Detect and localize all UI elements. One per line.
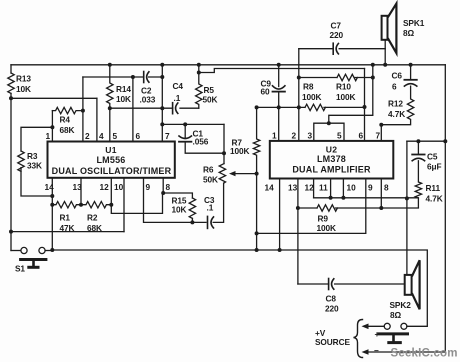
wire pin5 U1 [109, 108, 111, 141]
wire R3 bottom [21, 168, 52, 196]
wire pin7 bracket U1 [162, 123, 224, 125]
svg-text:2: 2 [85, 131, 90, 141]
junction C5 top [416, 139, 420, 143]
junction pin11 U2 [329, 196, 333, 200]
svg-text:C5: C5 [427, 152, 438, 162]
svg-text:100K: 100K [230, 146, 250, 156]
IC U1 box [48, 142, 175, 178]
wire left rail mid [10, 93, 12, 250]
wire pin12 U2 [313, 179, 315, 198]
resistor R3 [18, 151, 24, 171]
wire C5 top [407, 140, 445, 142]
svg-text:C8: C8 [326, 294, 337, 304]
junction R7 wiper [255, 172, 259, 176]
wire pin7 U2 [380, 125, 382, 141]
svg-text:4.7K: 4.7K [388, 109, 405, 119]
svg-text:.1: .1 [174, 93, 181, 103]
switch S1 [21, 247, 46, 267]
svg-text:+: + [375, 329, 380, 339]
svg-text:9: 9 [146, 182, 151, 192]
junction R8 right / pin6 U2 [363, 105, 367, 109]
wire pin8 U2 [380, 179, 382, 209]
junction C5 line / right rail [443, 139, 447, 143]
wire pin14 U2 [279, 179, 281, 251]
svg-text:68K: 68K [60, 125, 75, 135]
svg-text:R14: R14 [116, 84, 131, 94]
junction R7 bottom / pin9 U2 line [255, 231, 259, 235]
resistor R1 [52, 202, 81, 208]
junction top rail / C9 [277, 63, 281, 67]
resistor R7 chain [253, 107, 259, 250]
resistor R6 [219, 164, 225, 183]
wire pin10 U1 [123, 178, 125, 232]
junction R1-R2 / pin13 U1 [79, 203, 83, 207]
svg-text:R11: R11 [426, 183, 441, 193]
svg-text:220: 220 [330, 30, 344, 40]
svg-text:5: 5 [337, 131, 342, 141]
svg-text:8: 8 [166, 182, 171, 192]
wire C1 bottom [185, 143, 224, 154]
svg-text:100K: 100K [302, 92, 322, 102]
brace [354, 320, 363, 358]
junction C9 bottom / pin1 U2 [277, 105, 281, 109]
wire R10 line [299, 77, 373, 79]
svg-text:6: 6 [136, 131, 141, 141]
svg-text:1: 1 [46, 131, 51, 141]
wire pin2 U2 [298, 49, 300, 141]
junction R10 left / pin2 U2 [297, 76, 301, 80]
wire R5 step feedback [199, 69, 365, 73]
svg-text:9: 9 [368, 183, 373, 193]
resistor R11 [415, 161, 421, 208]
junction R4 right / pin2 U1 [81, 109, 85, 113]
svg-text:50K: 50K [203, 175, 218, 185]
wire bottom rail [52, 250, 427, 326]
svg-text:C6: C6 [392, 71, 403, 81]
junction pin7 U1 bracket [160, 122, 164, 126]
wire S1 right to rail [45, 250, 52, 252]
resistor R14 [107, 65, 113, 108]
svg-text:100K: 100K [336, 92, 356, 102]
svg-text:R8: R8 [303, 82, 314, 92]
svg-text:R3: R3 [27, 151, 38, 161]
resistor R2 [81, 202, 111, 208]
junction R2 right / pin12 U1 [109, 203, 113, 207]
svg-text:DUAL OSCILLATOR/TIMER: DUAL OSCILLATOR/TIMER [52, 166, 172, 176]
wire bottom arrow line [368, 351, 445, 353]
svg-text:12: 12 [100, 182, 110, 192]
junction bottom rail / R7 branch [255, 248, 259, 252]
wire C7 line [299, 48, 385, 50]
junction pin8 U1 / R15 [161, 191, 165, 195]
svg-text:10K: 10K [116, 94, 131, 104]
svg-text:14: 14 [45, 182, 55, 192]
svg-text:R4: R4 [60, 115, 71, 125]
wire R15 bottom [191, 218, 193, 222]
junction bottom rail / S1-pin14 U1 [50, 248, 54, 252]
capacitor C3 [208, 216, 214, 228]
capacitor C8 [329, 279, 334, 290]
wire right rail [444, 65, 446, 352]
wire R13 to pin4 [11, 97, 97, 99]
capacitor C5 [412, 141, 424, 161]
wire C8 line [298, 283, 405, 285]
resistor R5 [196, 65, 202, 108]
junction top rail / pin7 U1 riser [160, 63, 164, 67]
svg-text:U1: U1 [105, 145, 117, 155]
capacitor C2 [144, 72, 149, 83]
svg-text:SPK2: SPK2 [390, 300, 412, 310]
svg-text:.1: .1 [207, 203, 214, 213]
wire pin11 U2 [330, 179, 332, 198]
junction pin7 U2 / R12 [379, 123, 383, 127]
svg-text:R9: R9 [318, 214, 329, 224]
wire pin13 U2 down [297, 179, 299, 285]
junction pin3-5 bracket U2 [327, 121, 331, 125]
wire pin3-5 bracket U2 [314, 123, 344, 141]
wire R8 line [257, 106, 365, 108]
wire pin7 U1 riser [161, 65, 163, 142]
svg-text:10: 10 [347, 183, 357, 193]
junction C2 line / pin7 riser [160, 75, 164, 79]
svg-text:6μF: 6μF [427, 162, 441, 172]
junction R11 line / SPK2 riser [405, 196, 409, 200]
svg-text:7: 7 [165, 131, 170, 141]
wire pin4 U1 [96, 98, 98, 141]
junction top rail / R14 [108, 63, 112, 67]
capacitor C7 [333, 43, 338, 54]
svg-text:8Ω: 8Ω [390, 310, 402, 320]
junction C4 line / pin7 riser [160, 106, 164, 110]
svg-text:R13: R13 [16, 74, 31, 84]
svg-text:47K: 47K [60, 223, 75, 233]
wire S1 left [11, 250, 21, 252]
svg-text:S1: S1 [15, 264, 25, 274]
wire pin10 U2 [342, 179, 344, 198]
svg-text:LM556: LM556 [96, 155, 125, 165]
wiper arrow R6 [233, 173, 257, 175]
wire pin1 U1 [51, 111, 53, 142]
svg-text:68K: 68K [87, 223, 102, 233]
IC U2 text [292, 145, 371, 175]
junction R1 left / pin14 U1 [50, 203, 54, 207]
svg-text:100K: 100K [317, 223, 337, 233]
resistor R10 [337, 74, 357, 80]
wire C2 line [83, 76, 162, 78]
svg-text:220: 220 [325, 304, 339, 314]
wire line1 pins 12-11-10 to R11 [314, 197, 419, 199]
junction R8 left / pin2 U2 [297, 105, 301, 109]
junction R9 left / pin13 U2 [296, 206, 300, 210]
capacitor C1 [179, 124, 191, 141]
svg-text:11: 11 [319, 183, 328, 193]
junction R5 top step [197, 71, 201, 75]
wire left rail top [10, 65, 12, 73]
svg-text:−: − [374, 346, 379, 356]
svg-text:33K: 33K [27, 161, 42, 171]
junction top rail / R10 riser [371, 63, 375, 67]
wire pin12-pin8 link [111, 193, 162, 213]
svg-text:6: 6 [359, 131, 364, 141]
svg-text:U2: U2 [326, 145, 338, 155]
junction top rail / C6 [409, 63, 413, 67]
svg-text:3: 3 [308, 131, 313, 141]
svg-text:.056: .056 [193, 137, 209, 147]
junction pin10 U2 [341, 196, 345, 200]
svg-text:13: 13 [73, 182, 83, 192]
wire C3 to R6 [213, 183, 223, 222]
junction C9 bottom line / R7 top [255, 105, 259, 109]
junction R10 right / riser [371, 76, 375, 80]
capacitor C6 [404, 80, 416, 86]
speaker SPK1 [382, 4, 397, 53]
wire pin12 U1 [110, 178, 112, 205]
svg-text:10K: 10K [16, 84, 31, 94]
wire SPK2 riser [406, 141, 408, 275]
resistor R15 [189, 198, 195, 218]
junction R3 bottom / pin14 U1 [50, 194, 54, 198]
svg-text:SOURCE: SOURCE [315, 337, 350, 347]
svg-text:10: 10 [114, 182, 124, 192]
svg-text:DUAL AMPLIFIER: DUAL AMPLIFIER [292, 165, 371, 175]
svg-text:13: 13 [288, 183, 298, 193]
capacitor C9 [273, 65, 285, 92]
wire pin2 U1 [82, 77, 84, 142]
wire rail to pin10 link [11, 231, 124, 233]
svg-text:5: 5 [113, 131, 118, 141]
junction R14 bottom / pin5 U1 [108, 106, 112, 110]
svg-text:2: 2 [292, 131, 297, 141]
resistor R9 [317, 205, 337, 211]
svg-text:8Ω: 8Ω [403, 28, 415, 38]
wire SPK1 lead [384, 40, 386, 65]
junction left rail / pin10 link [9, 230, 13, 234]
wire pin9 U1 to C3 [144, 178, 207, 223]
junction C2 line / pin6 U1 [131, 75, 135, 79]
svg-text:60: 60 [261, 87, 271, 97]
junction R13 bottom [9, 96, 13, 100]
junction C1 top [183, 122, 187, 126]
svg-text:R6: R6 [203, 165, 214, 175]
svg-text:.033: .033 [140, 95, 156, 105]
resistor R8 [305, 104, 325, 110]
junction bottom rail / pin14 U2 [278, 248, 282, 252]
wire top rail [11, 64, 445, 66]
junction C1 bottom / R6 top [222, 151, 226, 155]
battery terminals [379, 323, 408, 342]
IC U2 box [270, 141, 394, 179]
wire pin6 U2 riser [364, 69, 366, 141]
svg-text:R12: R12 [388, 99, 403, 109]
svg-text:4: 4 [99, 131, 104, 141]
svg-text:8: 8 [384, 183, 389, 193]
wire battery left arrow [368, 325, 384, 327]
svg-text:C4: C4 [173, 81, 184, 91]
svg-text:50K: 50K [203, 95, 218, 105]
wire R6 top [223, 124, 225, 163]
wire R3 top [21, 127, 52, 151]
wire pin1 U2 [278, 92, 280, 141]
svg-text:R1: R1 [60, 213, 71, 223]
wire pin14 U1 [51, 178, 53, 250]
resistor R4 [52, 107, 80, 113]
svg-text:10K: 10K [172, 205, 187, 215]
svg-text:14: 14 [265, 183, 275, 193]
svg-text:6: 6 [392, 82, 397, 92]
wire C4 line [110, 107, 199, 109]
resistor R13 [8, 73, 14, 93]
svg-text:LM378: LM378 [317, 154, 346, 164]
wire R9 line [298, 207, 419, 209]
svg-text:4.7K: 4.7K [426, 194, 443, 204]
svg-text:C7: C7 [331, 21, 342, 31]
svg-text:1: 1 [272, 131, 277, 141]
svg-text:7: 7 [376, 131, 381, 141]
junction top rail / R5 [197, 63, 201, 67]
wire pin6 U1 [132, 77, 134, 142]
svg-text:SPK1: SPK1 [403, 18, 425, 28]
junction top rail / SPK1-C7 [383, 63, 387, 67]
junction R9 right / pin8 U2 [379, 206, 383, 210]
wire pin13 U1 [80, 178, 82, 205]
junction pin1 U1 / R3 top [50, 125, 54, 129]
IC U1 text [52, 145, 172, 176]
wire R10 riser [329, 65, 373, 123]
svg-text:R2: R2 [87, 213, 98, 223]
speaker SPK2 [405, 260, 420, 309]
svg-text:12: 12 [305, 183, 315, 193]
svg-text:SeekIC.com: SeekIC.com [391, 348, 458, 360]
svg-text:R10: R10 [336, 82, 351, 92]
svg-text:R5: R5 [204, 85, 215, 95]
wire pin8 U1 to R15 [163, 178, 192, 198]
wire pin9 U2 to R7 [257, 179, 366, 234]
capacitor C4 [173, 103, 178, 114]
wire C6 R12 chain [381, 65, 414, 125]
junction R15 bottom / C3 line [190, 220, 194, 224]
